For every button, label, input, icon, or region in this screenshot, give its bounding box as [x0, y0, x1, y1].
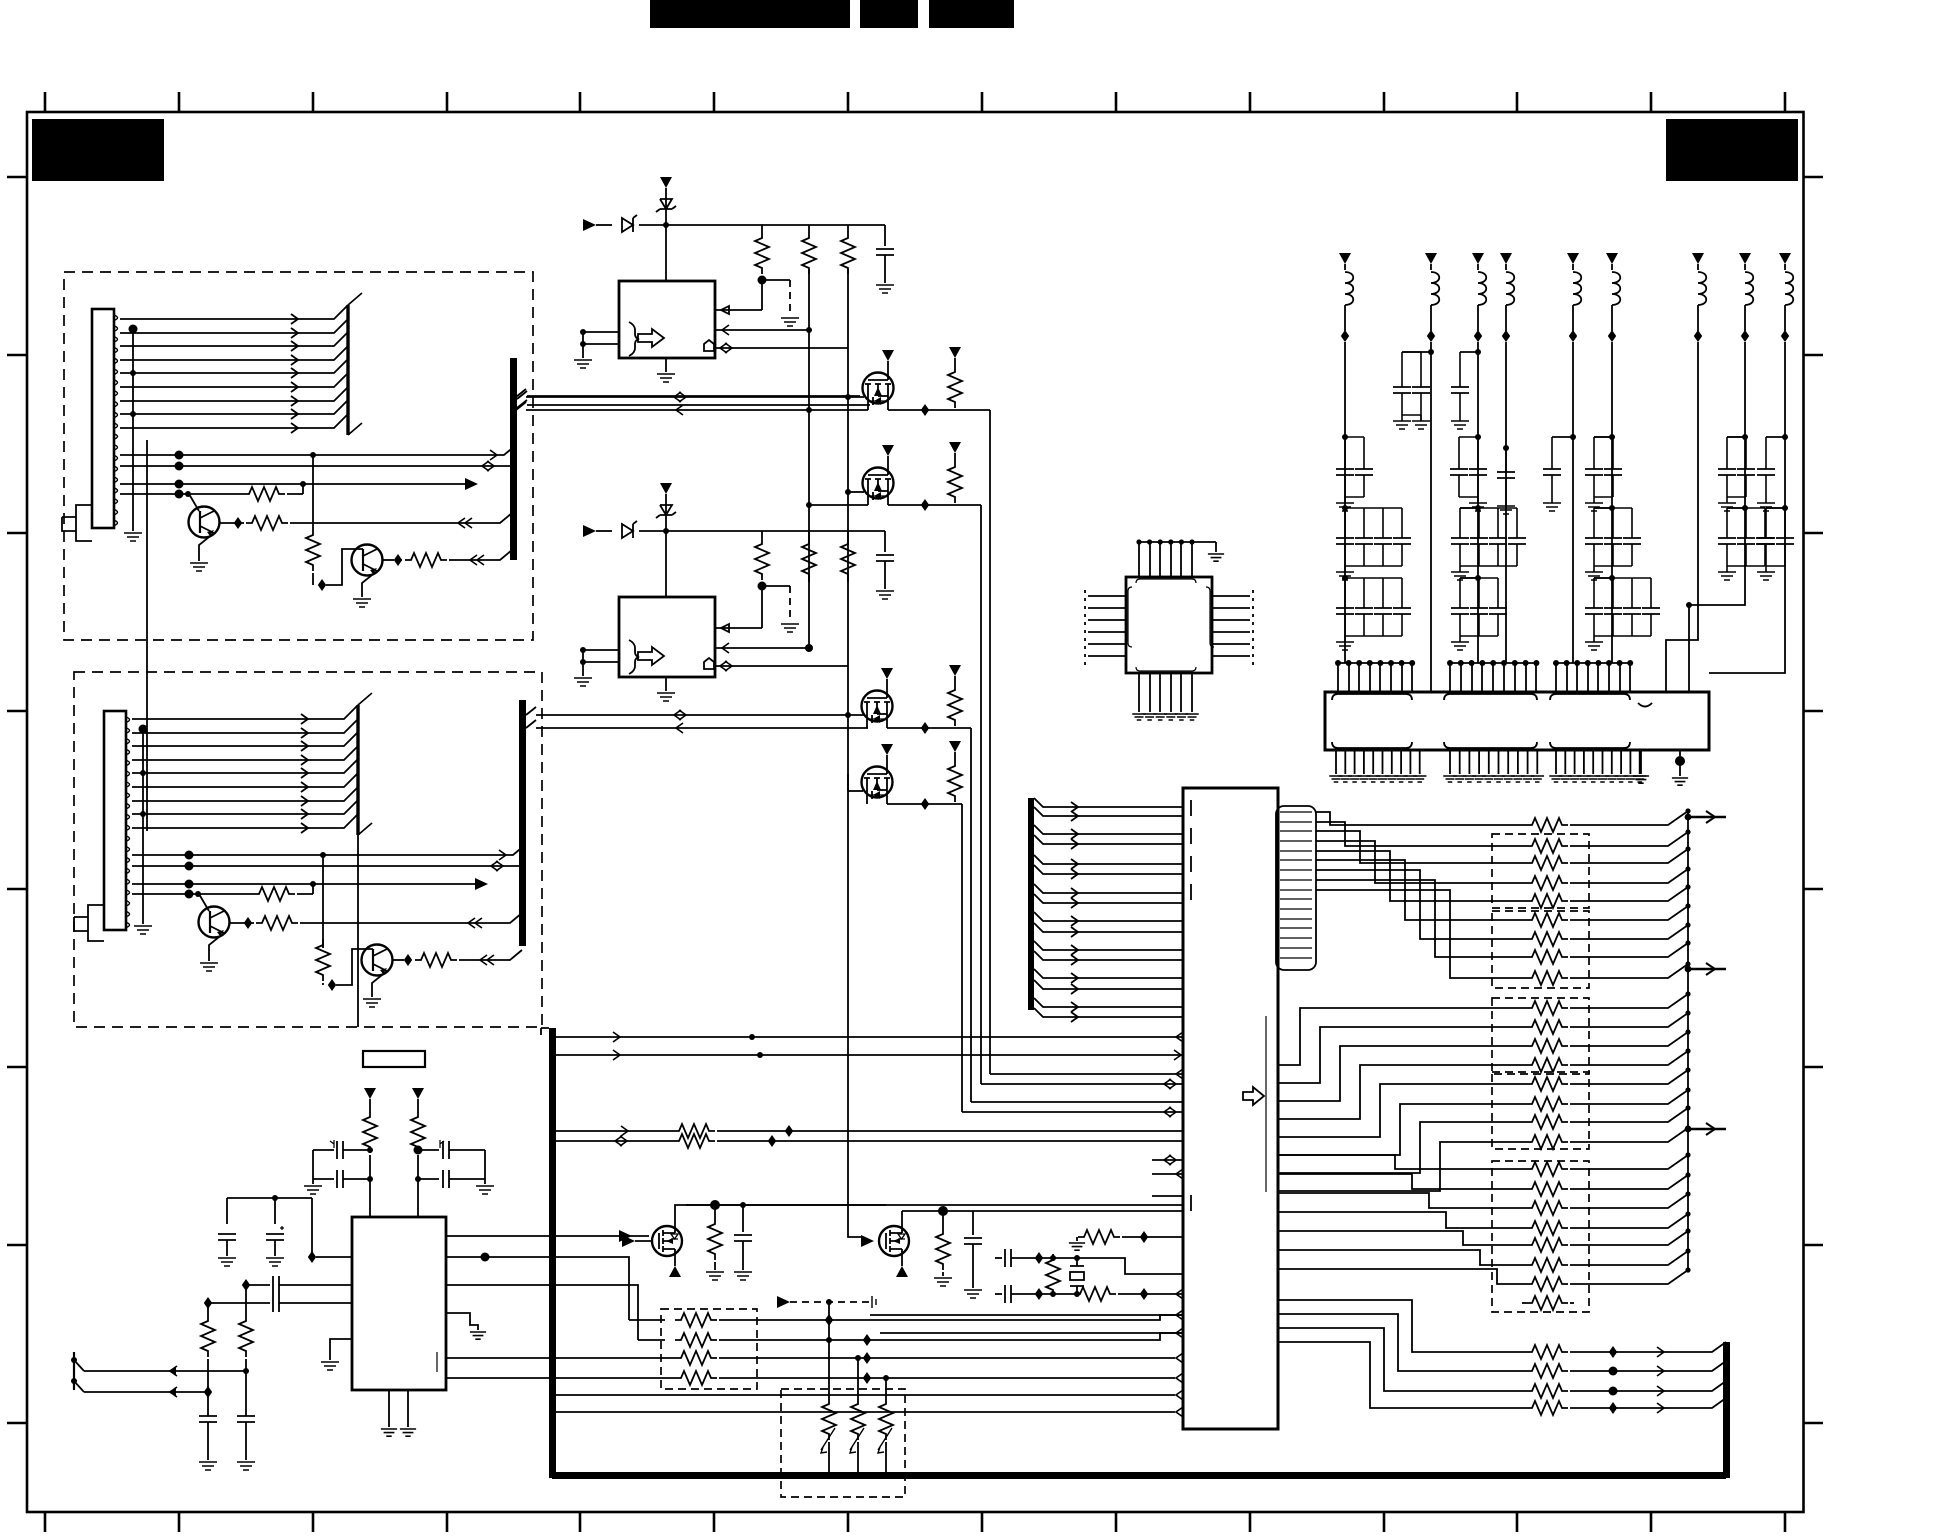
driver A input diode D1: [596, 224, 612, 226]
xtal cap XC2 row: [995, 1293, 1002, 1295]
decoupling bank rowA col2: [1402, 351, 1431, 353]
resistor RS1: [369, 1100, 371, 1111]
wire harness J1 data lines to cable bus: [120, 305, 348, 428]
cap bank B5: [1552, 436, 1573, 438]
MOSFET M2: [863, 468, 894, 499]
I/O block 1 dashed outline: [64, 272, 533, 640]
power rail P4 arrow: [1500, 253, 1512, 264]
module bottom ground pins G1: [1336, 750, 1420, 774]
ground CE group left: [312, 1179, 314, 1184]
U2 pin feedback with arrow: [715, 586, 762, 628]
M1 row diamond: [921, 404, 929, 416]
regulator label box: [363, 1051, 425, 1067]
resistor RB1 vertical: [761, 531, 763, 538]
MOSFET M2 supply arrow: [882, 445, 894, 456]
MOSFET M3 supply arrow: [881, 668, 893, 679]
fanout staircase group2: [1278, 1008, 1526, 1191]
U2 bottom pin to ground: [665, 677, 667, 691]
cap bank C3: [1475, 505, 1481, 511]
resistor RM2 pullup: [949, 442, 961, 453]
Q6 load resistor: [942, 1211, 944, 1228]
cap CB2 electrolytic: [266, 1234, 284, 1240]
resistor pack dashed box 3: [1492, 998, 1589, 1074]
module top pin rail G2: [1450, 662, 1537, 664]
ferrite bead L9: [1785, 272, 1793, 305]
Q5 load cap: [742, 1205, 744, 1232]
U5 pin row cap CS1: [246, 1284, 270, 1286]
QFP right pins: [1212, 596, 1250, 656]
cap bank B3: [1475, 434, 1481, 440]
connector J2 polarization key: [74, 905, 104, 941]
MOSFET M4 supply arrow: [881, 744, 893, 755]
crystal Y1: [1076, 1258, 1078, 1294]
vertical net Q3 area: [322, 855, 324, 948]
U1 left side inputs: [583, 332, 619, 344]
fanout staircase group4: [1278, 1300, 1526, 1408]
cap CE2: [313, 1150, 334, 1179]
Q4 emitter ground: [372, 971, 387, 997]
U4 pin stub 1160: [1152, 1159, 1183, 1161]
power rail P6 arrow: [1606, 253, 1618, 264]
QFP inner pad arcs: [1136, 579, 1196, 583]
module top pin rail G1: [1338, 662, 1412, 664]
ferrite bead L6: [1612, 272, 1620, 305]
rail col9 to module right side: [1709, 342, 1785, 673]
U1 mode pentagon: [704, 340, 714, 351]
driver B input arrow: [583, 525, 596, 537]
rail to U5 pin: [311, 1198, 313, 1257]
edge arrows: [170, 1366, 177, 1376]
U1 bottom pin to ground: [665, 358, 667, 372]
Q3 collector row with resistor R6: [229, 922, 254, 924]
power rail P3 diamond: [1477, 305, 1479, 331]
connector pin contacts J2: [126, 717, 130, 928]
rail col8 to module: [1689, 342, 1745, 692]
sense network dashed box: [781, 1389, 905, 1497]
dashed net to ground driver B: [789, 586, 791, 622]
bus top notch: [541, 1028, 549, 1035]
RA1 node to soft-start net: [758, 276, 767, 285]
resistor R7 vertical: [316, 939, 330, 981]
ground U2 left: [582, 662, 584, 676]
header redaction bar 3: [929, 0, 1014, 28]
resistor RA3 vertical: [847, 225, 849, 232]
driver IC U1 body: [619, 281, 715, 358]
MOSFET Q5: [652, 1226, 682, 1256]
cap CE4: [418, 1178, 439, 1180]
M2 row diamond: [921, 499, 929, 511]
U5 right pin notch to ground: [446, 1313, 478, 1330]
Q1 emitter to ground: [199, 533, 214, 561]
resistor RA2 vertical: [808, 225, 810, 232]
QFP left pin header dashes: [1084, 590, 1086, 668]
M4 row diamond: [921, 798, 929, 810]
transistor Q3: [199, 907, 230, 938]
ferrite bead L8: [1745, 272, 1753, 305]
resistor RM4 pullup: [949, 741, 961, 752]
arrowheads on J1 data lines: [291, 314, 298, 433]
wire harness J2 data lines to cable bus: [132, 705, 358, 828]
resistor R3 vertical: [306, 529, 320, 571]
U4 pin from M2 output: [981, 1083, 1183, 1085]
U2 left side inputs: [583, 650, 619, 662]
U5 bottom pins to ground: [389, 1390, 408, 1427]
M3 row diamond: [921, 722, 929, 734]
resistor pack dashed box 1: [1492, 834, 1589, 908]
U5 right pin row 1257: [446, 1257, 629, 1320]
header redaction bar 2: [860, 0, 918, 28]
bus2 top taps to M3: [526, 707, 868, 728]
power rail P2 arrow: [1425, 253, 1437, 264]
cap bank C9: [1766, 507, 1785, 509]
resistor R5 base Q3: [253, 887, 295, 901]
soft start net drop: [828, 1302, 830, 1320]
U1 pin feedback with arrow: [715, 280, 762, 310]
resistor RM1 pullup: [949, 347, 961, 358]
ground U1 left: [582, 344, 584, 358]
U4 pin wire control 2 with resistor: [556, 1140, 1183, 1142]
bypass rail caps left of U5: [227, 1198, 312, 1224]
resistor RA1 vertical: [761, 225, 763, 232]
transistor Q1: [189, 507, 220, 538]
Q2 collector row resistor R4: [382, 559, 394, 561]
ground Q3: [200, 963, 218, 971]
power rail P4 diamond: [1505, 305, 1507, 331]
connector J1 polarization key: [62, 505, 92, 541]
title block redaction top-left: [32, 119, 164, 181]
MOSFET M1: [863, 373, 894, 404]
connector housing J2: [104, 711, 126, 930]
cap bank D1: [1342, 575, 1348, 581]
U2 top pin: [665, 531, 667, 597]
feedback row 4: [675, 1371, 717, 1385]
vertical rails power columns: [1345, 342, 1612, 692]
Q2 emitter ground: [362, 571, 377, 597]
group1 rows to collector: [1570, 811, 1688, 978]
Q5 source arrow: [674, 1263, 676, 1266]
U4 right header bracket: [1276, 806, 1316, 970]
signal rows block2 with terminal dots: [132, 845, 525, 894]
xtal feedback resistor: [1046, 1254, 1060, 1296]
system bus vertical bar: [549, 1028, 556, 1478]
fanout exit arrow 3: [1688, 1128, 1726, 1131]
output bus bar bottom right: [1723, 1342, 1730, 1478]
bus fanout arrowheads: [1071, 802, 1078, 1022]
M4 gate row: [848, 790, 863, 792]
U5 internal mark: [436, 1352, 438, 1372]
U5 supply arrow A: [364, 1088, 376, 1099]
module extra bottom pin 1: [1640, 750, 1642, 774]
Q4 collector row resistor R8: [392, 959, 404, 961]
signal rows block1 with terminal dots: [120, 445, 516, 494]
U4 internal bus arrow: [1243, 1087, 1264, 1105]
xtal output resistor: [1074, 1287, 1116, 1301]
vertical net Q1 area: [312, 455, 314, 529]
U4 pin wire SCL: [556, 1054, 1183, 1056]
MOSFET Q6 gate arrow: [861, 1235, 874, 1247]
net RA3 continuation to Q6: [848, 774, 862, 1237]
M4 source row: [887, 803, 962, 805]
fanout exit arrow 2: [1688, 968, 1726, 971]
cap bank B4: [1503, 445, 1509, 451]
U5 pin stub to ground: [330, 1339, 352, 1360]
Q1 base wire: [189, 494, 199, 511]
U4 pin from M4 output: [962, 1111, 1183, 1113]
feedback resistor dashed box: [661, 1309, 757, 1389]
U2 internal brace and arrow: [629, 640, 639, 674]
ferrite bead L2: [1431, 272, 1439, 305]
collector row arrows into bus2: [468, 918, 475, 928]
resistor pack rows group1: [1526, 818, 1568, 832]
module bottom ground pins G3: [1556, 750, 1640, 774]
module socket brackets bottom: [1332, 742, 1412, 748]
R1 right link: [302, 484, 304, 494]
arrows M1 row: [674, 392, 681, 402]
cable bus gather bar block2: [356, 705, 359, 835]
transistor Q2: [352, 545, 383, 576]
driver B input diode D2: [596, 530, 612, 532]
fanout staircase group1: [1316, 812, 1526, 978]
RB1 node to soft-start net: [758, 582, 767, 591]
power rail P6 diamond: [1611, 305, 1613, 331]
interface bus bar block1: [510, 358, 517, 560]
U4 pin from M3 output: [971, 1101, 1183, 1103]
U5 supply arrow B: [412, 1088, 424, 1099]
ferrite bead L3: [1478, 272, 1486, 305]
resistor pack dashed box 2: [1492, 911, 1589, 988]
group2 rows to collector: [1570, 994, 1688, 1142]
divider resistor RD1: [207, 1303, 209, 1315]
sense resistor RV3: [885, 1378, 887, 1398]
interface bus bar block2: [519, 700, 526, 946]
cap bank B6: [1609, 434, 1615, 440]
driver A zener diode ZD1: [665, 192, 667, 225]
module extra bottom pin 2 with node: [1679, 750, 1681, 776]
feedback row 1: [629, 1319, 665, 1321]
driver B zener diode ZD2: [665, 498, 667, 531]
fanout collector vertical: [1687, 811, 1689, 1270]
group3 rows to collector: [1570, 1155, 1688, 1284]
system bus bottom thick rail: [552, 1472, 1726, 1479]
power rail P9 arrow: [1779, 253, 1791, 264]
Q5 gate wire segment: [635, 1240, 652, 1242]
regulator U5 body: [352, 1217, 446, 1390]
MOSFET Q6: [879, 1226, 909, 1256]
resistor RB2 vertical: [808, 531, 810, 538]
module top pin rail G3: [1556, 662, 1630, 664]
row 884 output arrow: [475, 878, 488, 890]
U5 right pin gate drive row: [446, 1235, 649, 1237]
soft start dashed net arrow: [777, 1296, 790, 1308]
U2 pin enable: [715, 647, 809, 649]
M2 output elbow down: [980, 505, 982, 1084]
dashed net to ground driver A: [789, 280, 791, 316]
decoupling bank rowA col3: [1460, 351, 1478, 353]
QFP U3 body: [1126, 577, 1212, 673]
sense resistor RV1: [828, 1320, 830, 1398]
ground Q1: [190, 563, 208, 571]
xtal row ground: [1076, 1237, 1078, 1241]
M1 source row: [516, 402, 990, 410]
Q5 drain rail: [675, 1205, 886, 1219]
driver A input arrow: [583, 219, 596, 231]
M4 output elbow down: [961, 804, 963, 1112]
cap bank B8: [1742, 434, 1748, 440]
U4 pin from M1 output: [990, 1073, 1183, 1075]
power rail P2 diamond: [1430, 305, 1432, 331]
cap bank B9: [1766, 436, 1785, 438]
ferrite bead L4: [1506, 272, 1514, 305]
U4 pin pair from regulator rails: [686, 1205, 1183, 1211]
connector housing J1: [92, 309, 114, 528]
U4 internal dashed partition: [1190, 800, 1192, 905]
divider resistor RD2: [245, 1285, 247, 1315]
bus fanout wires to U4: [1034, 798, 1183, 1017]
resistor pack rows group2: [1526, 1001, 1568, 1015]
power rail P9 diamond: [1784, 305, 1786, 331]
module bottom ground pins G2: [1450, 750, 1537, 774]
row884 to row894 link: [312, 884, 314, 894]
ground CE group right: [484, 1179, 486, 1184]
group4 row marks: [1609, 1346, 1617, 1358]
ferrite bead L5: [1573, 272, 1581, 305]
module connector body: [1325, 692, 1709, 750]
module socket brackets top: [1332, 694, 1412, 700]
U1 pin enable: [715, 329, 809, 331]
title block redaction top-right: [1666, 119, 1798, 181]
R3 to Q2 link with diamond: [312, 573, 314, 585]
M2 gate row: [848, 491, 864, 493]
driver B supply arrow: [660, 483, 672, 494]
driver IC U2 body: [619, 597, 715, 677]
Q6 drain rail: [901, 1211, 903, 1219]
module orientation notch: [1638, 703, 1652, 707]
resistor R1 base Q1: [243, 487, 285, 501]
U4 pin stub 1196: [1152, 1195, 1183, 1197]
CE node dots: [367, 1147, 373, 1153]
MOSFET M3: [862, 691, 893, 722]
resistor RS2: [417, 1100, 419, 1111]
driver A supply arrow: [660, 177, 672, 188]
long vertical net from block1 to block2: [146, 440, 148, 831]
net stub below block2 gather: [357, 835, 359, 1027]
cap bank D3: [1475, 575, 1481, 581]
net RA2 vertical run: [808, 276, 810, 648]
U2 mode pentagon: [704, 658, 714, 669]
R7 to Q4 link with diamond: [322, 983, 324, 985]
U4 pin wire control 1 with resistor: [556, 1130, 1183, 1132]
ferrite bead L1: [1345, 272, 1353, 305]
row 455/466 bus-entry arrows: [490, 450, 497, 460]
QFP bottom pins: [1139, 673, 1192, 712]
arrows M3 rows: [674, 710, 681, 720]
xtal damp resistor row: [1078, 1230, 1120, 1244]
bus1 top taps to FET rows: [517, 391, 870, 408]
output row 2 to edge: [84, 1391, 208, 1393]
U1 internal brace and arrow: [629, 322, 639, 356]
cap bank C8: [1742, 505, 1748, 511]
spare resistor row: [1522, 1302, 1526, 1304]
QFP rail to ground: [1215, 542, 1217, 552]
M1 gate row: [516, 389, 864, 397]
Q3 emitter to ground: [209, 933, 224, 961]
junction chain on J1 pins: [132, 329, 134, 531]
row 455 junction: [310, 452, 316, 458]
row 484 output arrow: [465, 478, 478, 490]
U4 bottom left pin rows: [446, 1357, 1175, 1359]
edge connector stub: [73, 1352, 75, 1390]
resistor RB3 vertical: [847, 531, 849, 538]
divider cap CD2: [237, 1416, 255, 1422]
M3 source row: [887, 727, 971, 729]
M2 source row: [809, 504, 981, 506]
MOSFET Q5 gate arrow: [622, 1235, 635, 1247]
resistor pack rows group3: [1526, 1162, 1568, 1176]
driver B supply rail: [666, 530, 885, 532]
power rail P7 arrow: [1692, 253, 1704, 264]
connector pin contacts J1: [114, 315, 118, 526]
U5 pin row cap CS2: [208, 1302, 270, 1304]
divider cap CD1: [199, 1416, 217, 1422]
net RA3 vertical run to gates: [847, 276, 849, 791]
U4 lower left pins: [870, 1314, 1183, 1316]
transistor Q4: [362, 945, 393, 976]
U2 pin comm bidirectional: [715, 665, 848, 667]
M1 output elbow down: [989, 410, 991, 1074]
output row 1 to edge: [84, 1370, 246, 1372]
resistor rows group4: [1526, 1345, 1568, 1359]
Q5 load resistor: [714, 1205, 716, 1218]
power rail P1 arrow: [1339, 253, 1351, 264]
power rail P1 diamond: [1344, 305, 1346, 331]
cap bank B1: [1342, 434, 1348, 440]
ground for J2 shield: [134, 926, 152, 934]
resistor pack dashed box 5: [1492, 1161, 1589, 1312]
power rail P5 arrow: [1567, 253, 1579, 264]
U1 top pin: [665, 225, 667, 281]
power rail P5 diamond: [1572, 305, 1574, 331]
U4 pin wire SDA: [556, 1036, 1183, 1038]
M3 output elbow down: [970, 728, 972, 1102]
power rail P3 arrow: [1472, 253, 1484, 264]
U4 right header stubs: [1280, 812, 1312, 958]
cable bus gather bar block1: [346, 305, 349, 435]
group4 arrows: [1570, 1342, 1726, 1408]
collector row arrows into bus: [458, 518, 465, 528]
U4 pin stub 1174: [1152, 1173, 1183, 1175]
row 855/866 bus-entry arrows: [499, 850, 506, 860]
feedback row 2: [638, 1339, 665, 1341]
capacitor CB1 to ground: [884, 531, 886, 552]
header redaction bar 1: [650, 0, 850, 28]
cap bank C1: [1342, 505, 1348, 511]
MOSFET M1 supply arrow: [882, 350, 894, 361]
cap bank D6: [1609, 575, 1615, 581]
sense resistor RV2: [857, 1358, 859, 1398]
U1 pin comm bidirectional: [715, 347, 848, 349]
I/O block 2 dashed outline: [74, 672, 542, 1027]
Q1 collector row with resistor R2: [219, 522, 244, 524]
fanout staircase group3: [1278, 1155, 1526, 1284]
Q6 source arrow: [901, 1263, 903, 1266]
power rail P7 diamond: [1697, 305, 1699, 331]
Q6 load cap: [972, 1211, 974, 1235]
ground for J1 shield: [124, 533, 142, 541]
U4 internal column line: [1265, 1016, 1267, 1192]
fanout exit arrow 1: [1688, 816, 1726, 819]
MOSFET M4: [862, 767, 893, 798]
driver A supply rail: [666, 224, 885, 226]
